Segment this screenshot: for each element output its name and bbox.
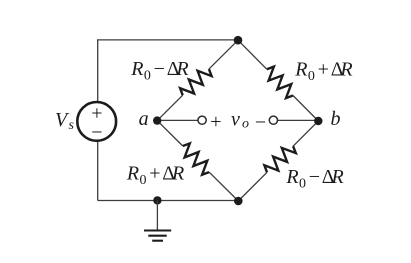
output terminal + (open circle) <box>198 116 206 124</box>
resistor R0+deltaR (top-right, top node to node b) <box>267 67 293 99</box>
svg-text:R0−ΔR: R0−ΔR <box>285 166 343 192</box>
wire: diamond side bottom vertex to b (lead segments) <box>238 172 267 201</box>
junction dot: node b <box>314 117 322 125</box>
svg-text:R0−ΔR: R0−ΔR <box>130 58 188 84</box>
junction dot: top node <box>234 36 243 45</box>
wire: ground stem <box>156 200 158 230</box>
wire: diamond side a to top (lead segments) <box>157 95 183 120</box>
svg-text:−: − <box>255 112 266 134</box>
junction dot: node a <box>153 116 161 124</box>
svg-text:R0+ΔR: R0+ΔR <box>294 59 352 85</box>
wire: bottom rail to bottom vertex <box>98 200 239 202</box>
svg-text:+: + <box>210 111 221 133</box>
ground <box>144 231 171 241</box>
wire: diamond side a to bottom vertex (lead segments) <box>157 121 183 146</box>
resistor R0-deltaR (bottom-right, bottom node to node b) <box>264 146 295 172</box>
output terminal - (open circle) <box>269 116 277 124</box>
resistor R0+deltaR (bottom-left, node a to bottom node) <box>183 143 209 174</box>
wire: top rail from source top corner to top node <box>98 40 238 102</box>
wire: - terminal to node b <box>278 119 319 121</box>
resistor R0-deltaR (top-left, node a to top node) <box>180 69 212 95</box>
voltage source Vs <box>77 102 116 141</box>
wire: node a to + terminal <box>157 119 198 121</box>
svg-text:−: − <box>91 122 102 144</box>
wire: source bottom down to bottom rail <box>97 141 99 200</box>
svg-text:b: b <box>331 108 341 130</box>
svg-text:R0+ΔR: R0+ΔR <box>126 163 184 189</box>
junction dot: bottom vertex <box>234 197 243 206</box>
junction dot: ground tap <box>153 196 161 204</box>
svg-text:a: a <box>139 108 149 130</box>
wire: diamond side top to b (lead segments) <box>238 40 267 69</box>
